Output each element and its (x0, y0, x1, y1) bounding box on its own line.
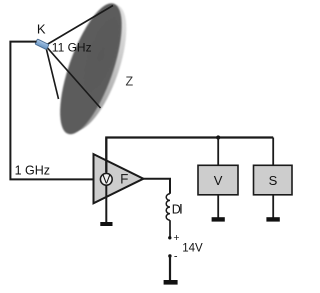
converter amplifier F (94, 154, 144, 203)
ground (S box) (266, 217, 279, 221)
wire amplifier output to choke (143, 179, 170, 194)
svg-text:F: F (120, 171, 128, 186)
svg-text:K: K (37, 22, 46, 37)
feed horn K (35, 39, 49, 50)
choke Dr (166, 194, 170, 220)
ray to dish lower edge (46, 48, 59, 100)
wire to V box (217, 138, 219, 166)
svg-text:V: V (102, 173, 111, 187)
node - terminal (168, 254, 171, 257)
svg-text:D: D (172, 202, 181, 216)
svg-text:S: S (269, 173, 278, 188)
ground (V box) (212, 217, 225, 221)
wire V box to ground (217, 195, 219, 218)
svg-text:Z: Z (126, 74, 134, 88)
dish back rim (51, 0, 139, 138)
wire choke to supply (169, 220, 171, 238)
box S (sound) (254, 165, 293, 195)
svg-text:11 GHz: 11 GHz (52, 41, 92, 55)
ray to dish top (47, 6, 113, 45)
label Dr stem (180, 204, 182, 214)
svg-text:1 GHz: 1 GHz (15, 163, 50, 177)
wire oscillator to ground (105, 185, 107, 223)
wire to S box (272, 138, 274, 166)
svg-text:-: - (174, 250, 178, 262)
ground (amplifier) (100, 222, 112, 226)
ground (supply) (164, 280, 178, 285)
wire feed to left rail (10, 42, 92, 180)
box V (video) (198, 165, 238, 195)
wire oscillator to top bus (105, 138, 107, 175)
svg-text:14V: 14V (182, 243, 203, 255)
node junction (216, 135, 220, 139)
wire S box to ground (272, 195, 274, 218)
dish reflector Z (47, 0, 134, 141)
svg-text:+: + (173, 232, 179, 244)
ray to dish centre (47, 47, 101, 108)
top bus wire (106, 138, 273, 173)
wire - terminal to ground (169, 256, 171, 280)
oscillator V (100, 173, 112, 185)
svg-text:V: V (214, 173, 223, 188)
node + terminal (168, 236, 171, 239)
